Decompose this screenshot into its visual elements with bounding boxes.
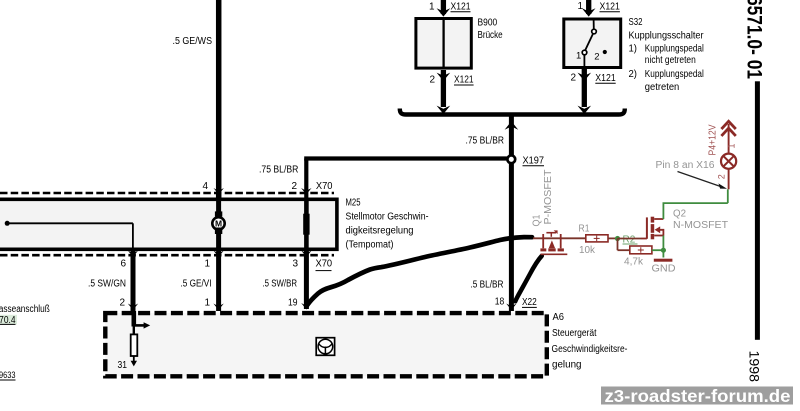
svg-text:P-MOSFET: P-MOSFET <box>543 170 554 225</box>
svg-text:6571.0- 01: 6571.0- 01 <box>742 0 766 79</box>
svg-text:digkeitsregelung: digkeitsregelung <box>346 226 414 237</box>
svg-text:.5 BL/BR: .5 BL/BR <box>471 280 504 291</box>
svg-text:1: 1 <box>205 258 211 269</box>
svg-text:6: 6 <box>121 258 127 269</box>
svg-text:R1: R1 <box>579 224 590 235</box>
svg-text:Pin 8 an X16: Pin 8 an X16 <box>656 160 715 171</box>
svg-text:A6: A6 <box>553 312 565 323</box>
svg-text:2: 2 <box>430 75 436 86</box>
svg-text:X121: X121 <box>600 2 621 13</box>
svg-text:X121: X121 <box>454 75 474 86</box>
svg-text:.5 GE/WS: .5 GE/WS <box>173 36 213 47</box>
svg-text:X197: X197 <box>523 156 545 167</box>
svg-text:2: 2 <box>717 174 727 179</box>
svg-text:.5 SW/GN: .5 SW/GN <box>88 279 126 290</box>
svg-text:GND: GND <box>652 264 676 275</box>
svg-text:M25: M25 <box>346 198 361 209</box>
svg-text:N-MOSFET: N-MOSFET <box>673 220 728 231</box>
svg-text:1: 1 <box>578 1 584 12</box>
svg-text:Masseanschluß: Masseanschluß <box>0 304 50 315</box>
svg-text:S32: S32 <box>629 17 643 28</box>
svg-text:.5 GE/VI: .5 GE/VI <box>181 279 212 290</box>
svg-text:Geschwindigkeitsre-: Geschwindigkeitsre- <box>552 344 628 355</box>
svg-text:2: 2 <box>594 52 599 63</box>
svg-text:gelung: gelung <box>552 360 582 371</box>
svg-text:2: 2 <box>292 181 298 192</box>
svg-text:B900: B900 <box>478 18 498 29</box>
svg-text:Kupplungspedal: Kupplungspedal <box>645 69 704 80</box>
svg-text:getreten: getreten <box>645 82 680 93</box>
svg-text:2: 2 <box>120 298 126 309</box>
svg-text:nicht getreten: nicht getreten <box>645 55 696 66</box>
svg-text:1: 1 <box>429 2 435 13</box>
svg-text:Steuergerät: Steuergerät <box>552 328 597 339</box>
svg-text:Q2: Q2 <box>673 209 686 220</box>
svg-text:X121: X121 <box>451 2 471 13</box>
svg-text:.75 BL/BR: .75 BL/BR <box>466 136 505 147</box>
svg-text:z3-roadster-forum.de: z3-roadster-forum.de <box>605 386 791 406</box>
svg-text:X70: X70 <box>316 259 333 270</box>
svg-text:1: 1 <box>727 143 737 148</box>
svg-text:Kupplungsschalter: Kupplungsschalter <box>629 31 705 42</box>
svg-text:9633: 9633 <box>0 370 16 380</box>
svg-text:1): 1) <box>629 44 638 55</box>
svg-text:.5 SW/BR: .5 SW/BR <box>263 279 298 290</box>
svg-text:1: 1 <box>205 298 211 309</box>
svg-text:1998: 1998 <box>747 351 762 383</box>
svg-text:Kupplungspedal: Kupplungspedal <box>645 44 704 55</box>
svg-text:4: 4 <box>203 181 209 192</box>
svg-text:P4+12V: P4+12V <box>708 124 719 155</box>
svg-text:2): 2) <box>629 69 638 80</box>
svg-text:Q1: Q1 <box>532 214 543 226</box>
svg-text:X22: X22 <box>522 297 537 308</box>
svg-text:3: 3 <box>293 258 299 269</box>
svg-text:(Tempomat): (Tempomat) <box>346 239 394 250</box>
svg-text:Brücke: Brücke <box>478 30 503 41</box>
svg-text:31: 31 <box>118 360 128 371</box>
svg-text:4,7k: 4,7k <box>624 257 644 268</box>
svg-text:X70: X70 <box>316 181 333 192</box>
svg-text:.75 BL/BR: .75 BL/BR <box>259 165 298 176</box>
svg-text:X121: X121 <box>595 73 616 84</box>
svg-text:M: M <box>215 219 222 229</box>
svg-text:10k: 10k <box>579 245 596 256</box>
svg-text:18: 18 <box>495 297 505 308</box>
svg-text:2: 2 <box>571 73 577 84</box>
svg-text:1: 1 <box>576 51 581 62</box>
svg-text:19: 19 <box>288 298 298 309</box>
svg-text:Stellmotor Geschwin-: Stellmotor Geschwin- <box>346 212 429 223</box>
